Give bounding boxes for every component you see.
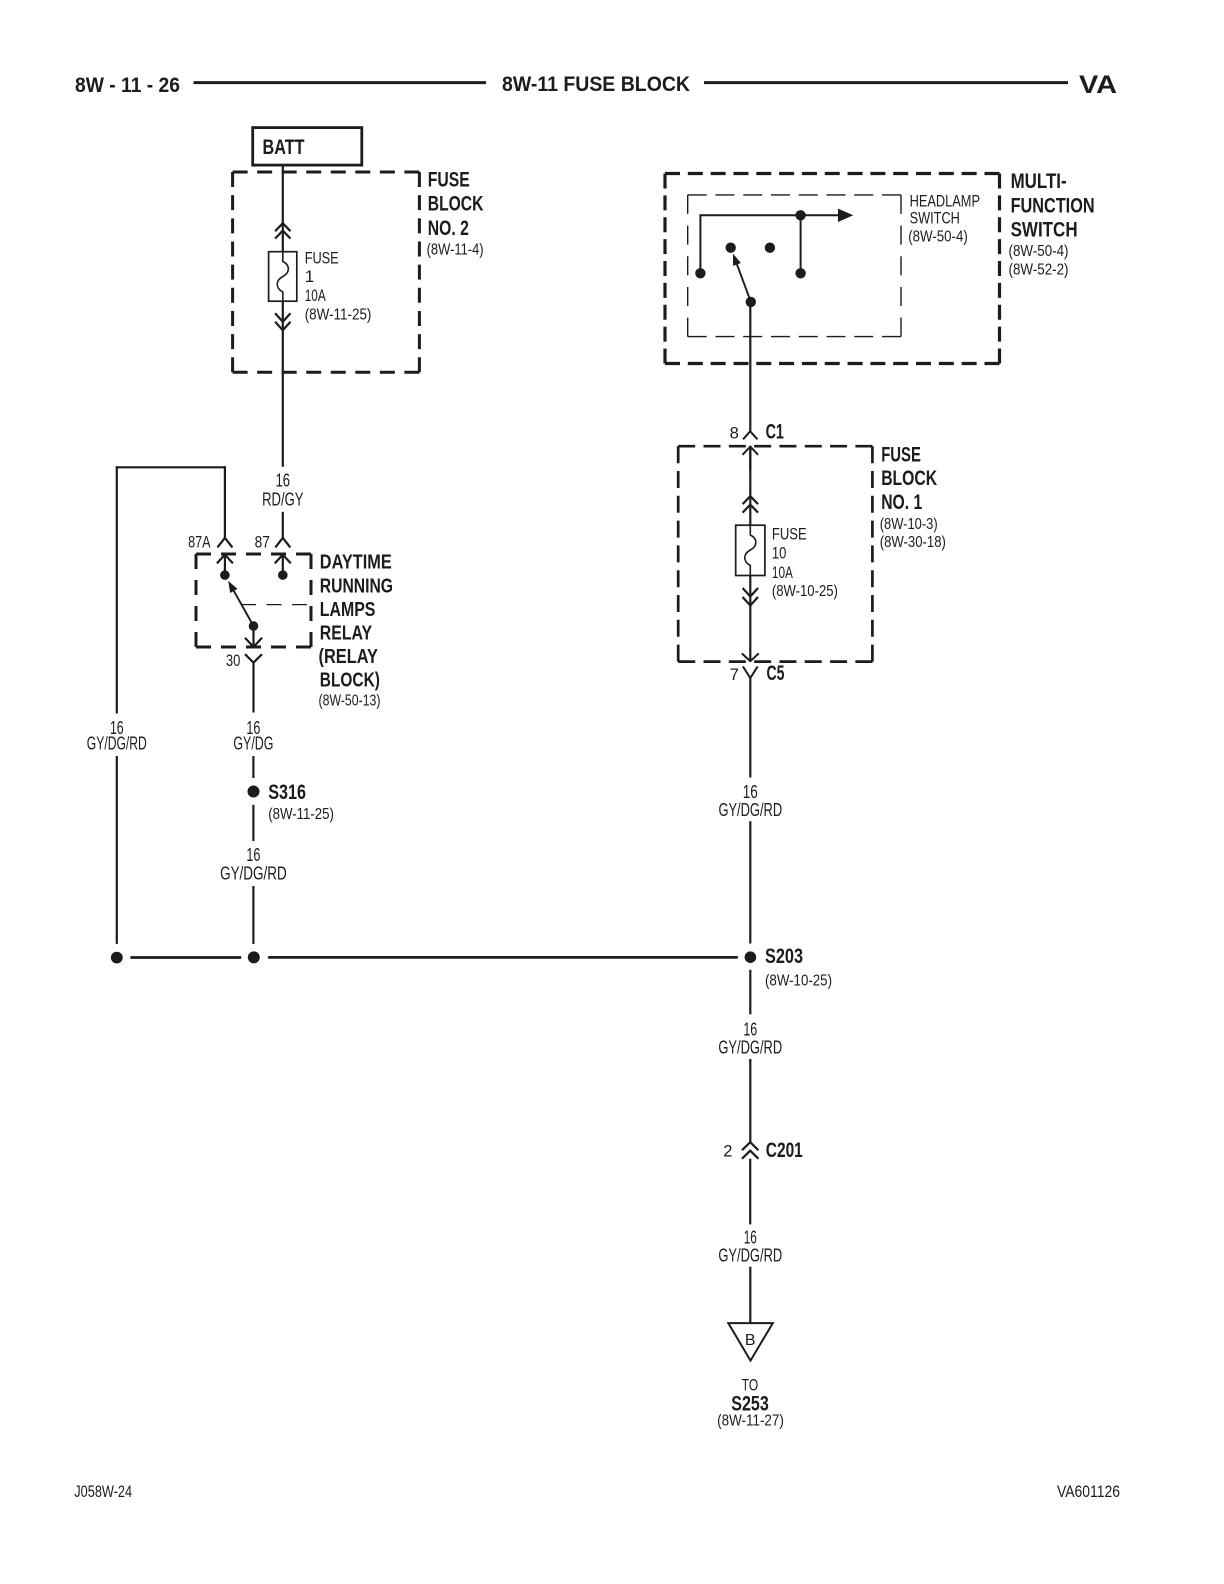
fuse F10 element (wavy) — [745, 526, 756, 576]
connector C1 male chevron — [743, 431, 757, 439]
wire label 16 GY/DG (pin 30) — [233, 718, 273, 754]
svg-text:GY/DG/RD: GY/DG/RD — [718, 1245, 782, 1265]
fuse F1 body — [269, 252, 297, 302]
header rule right — [704, 81, 1068, 84]
svg-text:(8W-11-4): (8W-11-4) — [427, 241, 484, 258]
battery feed box BATT — [253, 128, 362, 166]
svg-text:16: 16 — [744, 1227, 757, 1247]
pin label 7 — [730, 666, 739, 684]
svg-text:GY/DG/RD: GY/DG/RD — [220, 864, 287, 884]
svg-text:8W - 11 - 26: 8W - 11 - 26 — [75, 73, 180, 97]
wire BATT to fuse 1 — [282, 165, 284, 252]
switch throw node A — [726, 243, 736, 253]
svg-text:BLOCK: BLOCK — [428, 192, 484, 216]
bus wire segment left — [130, 956, 241, 959]
wire S316 down — [252, 805, 254, 841]
splice S203 node — [745, 951, 757, 963]
pin label 30 — [226, 652, 241, 670]
svg-text:30: 30 — [226, 652, 241, 670]
svg-text:FUSE: FUSE — [428, 168, 470, 192]
wire left branch vertical upper segment — [116, 466, 118, 713]
svg-text:VA601126: VA601126 — [1057, 1482, 1120, 1501]
label DAYTIME RUNNING LAMPS RELAY (RELAY BLOCK) (8W-50-13) — [319, 550, 394, 709]
wire pin30 label to splice S316 — [252, 756, 254, 778]
svg-text:(8W-50-4): (8W-50-4) — [908, 228, 968, 245]
wire RD/GY to relay pin 87 — [282, 512, 284, 538]
switch node on output line — [795, 210, 805, 220]
svg-text:FUNCTION: FUNCTION — [1011, 193, 1095, 217]
svg-text:RD/GY: RD/GY — [262, 489, 303, 509]
relay wiper arm with arrowhead — [228, 581, 253, 626]
svg-text:16: 16 — [246, 845, 260, 865]
fuse block no.2 dashed outline — [233, 172, 420, 372]
header rule left — [194, 81, 487, 84]
svg-text:(8W-10-3): (8W-10-3) — [880, 516, 938, 533]
wire relay pin30 down to label — [252, 663, 254, 713]
svg-text:(8W-50-4): (8W-50-4) — [1009, 243, 1069, 260]
relay contact node 87A — [220, 570, 230, 580]
svg-text:(8W-52-2): (8W-52-2) — [1009, 262, 1069, 279]
svg-text:RELAY: RELAY — [320, 622, 373, 645]
svg-text:SWITCH: SWITCH — [910, 209, 960, 228]
svg-text:16: 16 — [276, 471, 290, 491]
in-line connector double chevron above fuse 1 — [275, 223, 290, 238]
svg-text:2: 2 — [723, 1142, 732, 1160]
pin 30 male chevron below box — [245, 654, 262, 662]
fuse F1 element (wavy) — [277, 252, 288, 301]
svg-text:8: 8 — [730, 425, 739, 443]
connector C1 female arrow (into block) — [743, 446, 759, 470]
svg-text:VA: VA — [1079, 71, 1117, 99]
relay pin 87A terminal arrow (into box) — [217, 554, 233, 572]
switch common node — [746, 297, 756, 307]
label FUSE 10 10A (8W-10-25) — [772, 524, 838, 600]
svg-text:(8W-10-25): (8W-10-25) — [765, 972, 832, 989]
label FUSE 1 10A (8W-11-25) — [305, 248, 372, 323]
label C1 — [766, 420, 784, 444]
svg-text:FUSE: FUSE — [881, 443, 921, 467]
svg-text:LAMPS: LAMPS — [320, 598, 376, 621]
label TO S253 (8W-11-27) — [717, 1375, 784, 1429]
svg-text:GY/DG/RD: GY/DG/RD — [718, 1038, 782, 1058]
svg-text:10A: 10A — [305, 286, 326, 305]
wire inside fuse block no.1 upper — [749, 446, 751, 525]
svg-text:DAYTIME: DAYTIME — [320, 550, 392, 573]
wire fuse 1 to connector — [282, 301, 284, 316]
bus junction node middle — [248, 951, 260, 963]
connector C201 double chevron — [742, 1142, 758, 1159]
footer left: J058W-24 — [74, 1482, 132, 1501]
fuse block no.1 dashed outline — [678, 446, 872, 661]
headlamp switch inner dashed outline — [688, 195, 901, 337]
relay pin 87 terminal arrow (into box) — [275, 554, 291, 572]
wire fuse 10 down — [749, 575, 751, 661]
wire S316 label to bus — [252, 886, 254, 944]
svg-text:(8W-11-25): (8W-11-25) — [305, 307, 372, 324]
switch node (left leg bottom) — [695, 268, 705, 278]
relay pin 30 exit arrow (down) — [245, 629, 262, 647]
wire label 16 GY/DG/RD (C201 to S253) — [718, 1227, 782, 1265]
switch left leg wire — [699, 214, 701, 273]
wire label 16 GY/DG/RD (left branch) — [87, 718, 147, 754]
label FUSE BLOCK NO. 1 (8W-10-3) (8W-30-18) — [880, 443, 946, 551]
wire label 16 GY/DG/RD (C5 to S203) — [718, 782, 782, 820]
svg-text:16: 16 — [743, 782, 758, 802]
svg-text:GY/DG/RD: GY/DG/RD — [87, 734, 147, 754]
svg-text:BATT: BATT — [263, 135, 305, 159]
wire S203 down — [749, 970, 751, 1015]
svg-text:87A: 87A — [188, 533, 210, 551]
off-page connector triangle B — [728, 1323, 773, 1361]
svg-text:(RELAY: (RELAY — [319, 645, 379, 668]
svg-text:MULTI-: MULTI- — [1011, 169, 1067, 193]
svg-text:(8W-30-18): (8W-30-18) — [880, 534, 946, 551]
svg-text:S316: S316 — [268, 780, 306, 804]
svg-text:GY/DG/RD: GY/DG/RD — [718, 800, 782, 820]
svg-text:87: 87 — [255, 533, 270, 551]
svg-text:8W-11 FUSE BLOCK: 8W-11 FUSE BLOCK — [502, 72, 690, 96]
svg-text:HEADLAMP: HEADLAMP — [910, 192, 980, 211]
svg-text:GY/DG: GY/DG — [233, 734, 273, 754]
svg-text:S203: S203 — [765, 944, 803, 968]
multi-function switch dashed outline — [665, 174, 1000, 364]
svg-text:10A: 10A — [772, 563, 793, 582]
svg-text:(8W-11-27): (8W-11-27) — [717, 1413, 784, 1430]
svg-text:RUNNING: RUNNING — [320, 575, 393, 598]
pin 87 male chevron — [275, 538, 290, 548]
wire C5 down to label — [749, 678, 751, 778]
wire switch common down to connector C1 — [749, 302, 751, 431]
in-line connector double chevron below fuse 10 — [743, 588, 758, 606]
wire label to splice S203 — [749, 821, 751, 943]
svg-text:C5: C5 — [767, 661, 785, 685]
label HEADLAMP SWITCH (8W-50-4) — [908, 192, 980, 246]
switch output line with arrow (to headlamps) — [700, 209, 853, 222]
svg-text:BLOCK): BLOCK) — [320, 668, 380, 691]
footer right: VA601126 — [1057, 1482, 1120, 1501]
svg-text:B: B — [745, 1332, 756, 1349]
label MULTI-FUNCTION SWITCH (8W-50-4) (8W-52-2) — [1009, 169, 1095, 278]
pin label 2 — [723, 1142, 732, 1160]
connector C5 male chevron below block — [743, 666, 758, 678]
switch node (right leg bottom) — [795, 268, 805, 278]
in-line connector double chevron above fuse 10 — [743, 496, 758, 512]
svg-text:7: 7 — [730, 666, 739, 684]
svg-text:C1: C1 — [766, 420, 784, 444]
splice S316 node — [248, 786, 260, 798]
in-line connector double chevron below fuse 1 — [275, 313, 290, 330]
label BATT — [263, 135, 305, 159]
connector C5 exit arrow (down) — [742, 653, 759, 661]
relay inner thin dashed line — [241, 604, 311, 606]
pin label 87A — [188, 533, 210, 551]
label FUSE BLOCK NO. 2 (8W-11-4) — [427, 168, 484, 259]
wire C201 down to label — [749, 1159, 751, 1225]
wire branch vertical at x225 down to pin 87A — [224, 466, 226, 538]
svg-text:1: 1 — [305, 267, 314, 286]
wire label to off-page symbol B — [749, 1267, 751, 1323]
svg-text:(8W-10-25): (8W-10-25) — [772, 583, 838, 600]
label S316 (8W-11-25) — [268, 780, 334, 823]
label C5 — [767, 661, 785, 685]
bus wire segment right to S203 — [268, 956, 738, 959]
switch wiper arm with arrowhead — [733, 254, 751, 302]
wire branch horizontal (87A up and left) — [116, 466, 226, 468]
wire label 16 GY/DG/RD (S203 to C201) — [718, 1019, 782, 1057]
page header title: 8W-11 FUSE BLOCK — [502, 72, 690, 96]
svg-text:FUSE: FUSE — [305, 248, 339, 267]
svg-text:SWITCH: SWITCH — [1011, 218, 1078, 242]
page header left: 8W - 11 - 26 — [75, 73, 180, 97]
svg-text:J058W-24: J058W-24 — [74, 1482, 132, 1501]
wire label 16 RD/GY — [262, 471, 303, 510]
wire label 16 GY/DG/RD (S316 to bus) — [220, 845, 287, 884]
label C201 — [766, 1138, 803, 1162]
svg-text:C201: C201 — [766, 1138, 803, 1162]
svg-text:BLOCK: BLOCK — [881, 466, 937, 490]
relay contact node 87 — [278, 570, 288, 580]
svg-text:(8W-50-13): (8W-50-13) — [319, 692, 381, 709]
relay common node 30 — [249, 621, 259, 631]
wire label to connector C201 — [749, 1059, 751, 1142]
wire left branch vertical lower segment — [116, 756, 118, 944]
svg-text:(8W-11-25): (8W-11-25) — [268, 806, 334, 823]
page header right: VA — [1079, 71, 1117, 99]
svg-text:NO. 2: NO. 2 — [428, 216, 469, 240]
pin label 8 — [730, 425, 739, 443]
pin label 87 — [255, 533, 270, 551]
label S203 (8W-10-25) — [765, 944, 832, 989]
daytime running lamps relay dashed outline — [196, 554, 311, 647]
svg-text:16: 16 — [743, 1019, 757, 1039]
fuse F10 body — [736, 525, 765, 575]
svg-text:NO. 1: NO. 1 — [881, 490, 922, 514]
svg-text:FUSE: FUSE — [772, 524, 807, 543]
svg-text:10: 10 — [772, 544, 787, 563]
bus junction node left — [111, 952, 123, 964]
pin 87A male chevron — [217, 538, 232, 548]
wire fuse block no.2 down to label 16 RD/GY — [282, 316, 284, 467]
switch right leg wire — [800, 215, 802, 273]
switch throw node B — [765, 243, 775, 253]
